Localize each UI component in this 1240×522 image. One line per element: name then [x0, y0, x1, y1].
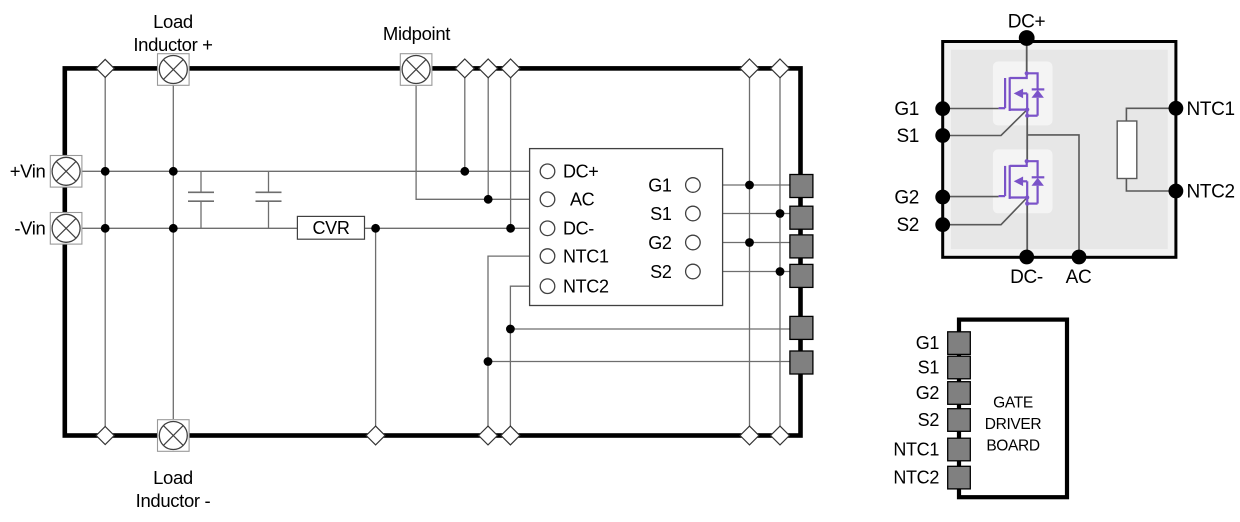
svg-text:DC+: DC+ [1008, 12, 1046, 33]
connector NTC1 [790, 351, 813, 374]
node G1/x749.5 [745, 181, 754, 190]
svg-text:DC-: DC- [1010, 267, 1043, 288]
wire vertical x=510.6 diamond to DC- row [510, 68, 512, 228]
svg-text:S2: S2 [918, 410, 940, 430]
pin G2 [935, 190, 950, 205]
node G2/x749.5 [745, 238, 754, 247]
mosfet Q2 background pad [993, 149, 1053, 213]
svg-text:Inductor +: Inductor + [133, 34, 212, 55]
mosfet Q2 [999, 159, 1045, 206]
wire S1 row [700, 213, 800, 215]
connector NTC2 [790, 316, 813, 339]
pin circle DC+ [540, 164, 555, 179]
node -Vin/x173 [169, 224, 178, 233]
mosfet Q1 background pad [993, 62, 1053, 126]
connector gdb G2 [948, 382, 971, 405]
svg-text:S2: S2 [650, 262, 672, 282]
test point diamond bottom x376 [366, 426, 385, 445]
svg-text:DRIVER: DRIVER [985, 416, 1042, 433]
pin circle S1 [686, 206, 701, 221]
connector gdb S2 [948, 409, 971, 432]
svg-text:NTC1: NTC1 [1187, 99, 1235, 120]
pin circle DC- [540, 221, 555, 236]
wire G1 to Q1 gate [943, 108, 999, 110]
svg-text:DC-: DC- [563, 219, 594, 239]
pin DC- [1019, 250, 1034, 265]
pin circle S2 [686, 264, 701, 279]
test point diamond bottom x488 [479, 426, 498, 445]
svg-text:BOARD: BOARD [986, 438, 1040, 455]
pin S2 [935, 217, 950, 232]
test point diamond bottom x510.4 [501, 426, 520, 445]
svg-text:G2: G2 [648, 233, 672, 253]
thermistor RT1 [1117, 121, 1137, 179]
svg-text:CVR: CVR [313, 218, 350, 238]
pin NTC2 [1169, 184, 1184, 199]
pin AC [1072, 250, 1087, 265]
pin DC+ [1019, 30, 1035, 46]
svg-text:NTC2: NTC2 [893, 468, 939, 488]
wire vertical Midpoint to AC row [416, 86, 540, 200]
board outline [65, 68, 801, 435]
wire -Vin row left of CVR [82, 227, 298, 229]
node DC+/x464.8 [460, 167, 469, 176]
node S2/x780 [776, 267, 785, 276]
svg-text:G1: G1 [894, 99, 919, 120]
connector G2 [790, 235, 813, 258]
wire +Vin row [82, 170, 541, 172]
svg-text:Inductor -: Inductor - [136, 490, 211, 511]
svg-text:G2: G2 [894, 188, 919, 209]
wire vertical x=749.5 G1/G2 full height [749, 68, 751, 435]
pin NTC1 [1169, 101, 1184, 116]
wire DC+ to Q1 drain [1026, 39, 1028, 73]
node +Vin/x173 [169, 167, 178, 176]
wire vertical x=375.6 CVR to bottom [375, 228, 377, 435]
connector gdb S1 [948, 356, 971, 379]
wire S2 to Q2 source [943, 198, 1027, 225]
wire vertical x=780 S1/S2 full height [779, 68, 781, 435]
svg-text:AC: AC [1066, 267, 1092, 288]
connector squares on right border [790, 175, 813, 375]
capacitor C2 [256, 171, 282, 228]
capacitor C1 [188, 171, 214, 228]
svg-text:+Vin: +Vin [10, 161, 46, 182]
wire NTC1 circle left and down to bottom [488, 256, 540, 435]
svg-text:S1: S1 [896, 126, 919, 147]
svg-text:G1: G1 [648, 175, 672, 195]
middle connector box [530, 149, 723, 306]
node AC/x488.2 [484, 195, 493, 204]
gate driver board outline [959, 320, 1067, 498]
svg-text:S1: S1 [918, 358, 940, 378]
test point diamond bottom x780 [771, 426, 790, 445]
wire NTC2 square row [510, 328, 800, 330]
wire NTC1 to thermistor [1126, 108, 1176, 121]
svg-text:NTC1: NTC1 [893, 440, 939, 460]
power module body U1 [943, 42, 1176, 258]
node -Vin/x105 [101, 224, 110, 233]
wire NTC1 square row [488, 361, 800, 363]
wire thermistor to NTC2 [1126, 179, 1176, 192]
wire vertical x=464.8 diamond to DC+ row [464, 68, 466, 171]
wire G2 to Q2 gate [943, 196, 999, 198]
connector gdb G1 [948, 332, 971, 355]
svg-text:NTC2: NTC2 [1187, 182, 1235, 203]
svg-text:Load: Load [153, 467, 193, 488]
node S1/x780 [776, 209, 785, 218]
terminal Load Inductor + [158, 54, 190, 86]
wire S2 row [700, 271, 800, 273]
test point diamond top x510.6 [501, 59, 520, 78]
terminal Load Inductor - [158, 420, 190, 452]
test point diamond top-left [96, 59, 114, 77]
svg-text:-Vin: -Vin [14, 218, 45, 239]
junction dots [101, 167, 785, 366]
connector squares on gate driver board [948, 332, 971, 489]
terminal +Vin [50, 156, 82, 188]
pin circle G2 [686, 235, 701, 250]
pin S1 [935, 128, 950, 143]
svg-text:Midpoint: Midpoint [383, 23, 450, 44]
test point diamond top x488.2 [479, 59, 498, 78]
pin circle NTC1 [540, 249, 555, 264]
wire vertical x=173 load inductor [172, 85, 174, 419]
connector gdb NTC1 [948, 438, 971, 461]
wire vertical x=488.2 diamond to AC row [487, 68, 489, 199]
svg-text:S2: S2 [896, 215, 919, 236]
test point diamond top x464.8 [455, 59, 474, 78]
svg-text:S1: S1 [650, 204, 672, 224]
svg-text:NTC1: NTC1 [563, 246, 609, 266]
connector S1 [790, 206, 813, 229]
node DC-/x510.6 [506, 224, 515, 233]
wire -Vin row right of CVR [365, 227, 530, 229]
connector G1 [790, 175, 813, 198]
svg-text:G2: G2 [916, 383, 940, 403]
node CVR out [371, 224, 380, 233]
test point diamond bottom x749.5 [740, 426, 759, 445]
mosfet Q1 [999, 71, 1045, 118]
connector S2 [790, 264, 813, 287]
test point diamond top x749.5 [740, 59, 759, 78]
pin circle NTC2 [540, 279, 555, 294]
wire NTC2 circle left and down to bottom [510, 286, 540, 435]
node NTC2 row [506, 325, 515, 334]
terminal -Vin [50, 213, 82, 245]
svg-text:AC: AC [570, 190, 595, 210]
CVR box [297, 216, 364, 239]
pin circle G1 [686, 178, 701, 193]
svg-text:G1: G1 [916, 333, 940, 353]
wire S1 to Q1 source [943, 110, 1027, 136]
wire AC branch to pin [1027, 135, 1079, 257]
svg-text:Load: Load [153, 11, 193, 32]
svg-text:DC+: DC+ [563, 162, 598, 182]
svg-text:GATE: GATE [993, 394, 1033, 411]
svg-text:NTC2: NTC2 [563, 277, 609, 297]
wire vertical x=105 top to bottom [104, 68, 106, 435]
test point diamond bottom x105 [96, 427, 114, 445]
pin G1 [935, 101, 950, 116]
wire Q2 source to DC- pin [1026, 204, 1028, 257]
wire G2 row [700, 242, 800, 244]
terminal Midpoint [400, 54, 432, 86]
node NTC1 row [484, 357, 493, 366]
test point diamond top x780 [771, 59, 790, 78]
wire G1 row [700, 184, 800, 186]
node +Vin/x105 [101, 167, 110, 176]
connector gdb NTC2 [948, 466, 971, 489]
pin circle AC [540, 192, 555, 207]
wire AC node [1026, 116, 1028, 162]
